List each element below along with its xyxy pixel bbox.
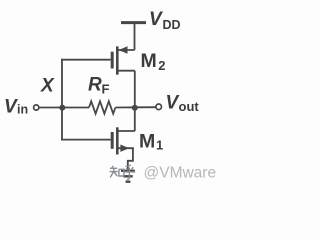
Vin terminal — [34, 105, 39, 110]
svg-text:V: V — [166, 93, 180, 114]
Vout terminal — [156, 104, 162, 110]
node X junction dot — [59, 105, 65, 111]
node X left rail — [61, 59, 63, 141]
gate bar — [111, 52, 114, 69]
transistor M1 (NMOS) — [112, 127, 135, 154]
resistor RF — [89, 101, 115, 113]
M2 label — [141, 50, 166, 73]
Vin label — [4, 96, 28, 117]
svg-text:V: V — [149, 9, 163, 30]
drain lead — [117, 70, 135, 72]
output junction dot — [132, 105, 138, 111]
Vout label — [166, 93, 200, 114]
wire output rail (M2 drain to M1 drain) — [134, 71, 136, 131]
RF label — [88, 74, 110, 96]
wire M2 gate lead — [61, 59, 111, 61]
drain lead — [117, 130, 135, 132]
PMOS arrow (points into channel, left) — [119, 46, 128, 53]
svg-text:out: out — [179, 99, 200, 114]
wire M1 gate lead — [61, 139, 111, 141]
svg-text:DD: DD — [163, 18, 181, 32]
NMOS arrow (points out of channel, right) — [120, 145, 129, 152]
svg-text:1: 1 — [156, 137, 163, 152]
ground — [121, 171, 135, 182]
VDD label — [149, 9, 181, 32]
svg-text:2: 2 — [158, 58, 165, 73]
source lead — [117, 147, 134, 149]
wire Vin to resistor — [39, 107, 89, 109]
svg-text:V: V — [4, 96, 18, 117]
gate bar — [111, 132, 114, 149]
svg-text:in: in — [17, 103, 28, 117]
svg-text:R: R — [88, 74, 102, 95]
svg-text:F: F — [102, 81, 110, 96]
svg-text:M: M — [139, 130, 155, 152]
wire resistor to output node — [115, 106, 155, 108]
wire VDD stem — [134, 23, 136, 50]
svg-text:X: X — [40, 76, 55, 97]
channel — [116, 127, 119, 154]
transistor M2 (PMOS) — [112, 46, 135, 74]
svg-text:@VMware: @VMware — [144, 165, 217, 182]
source lead — [117, 49, 134, 51]
wire M1 source to ground — [128, 148, 133, 170]
svg-text:M: M — [141, 50, 157, 72]
VDD supply bar — [121, 21, 146, 24]
watermark "知乎" glyph approximation — [110, 165, 136, 180]
channel — [116, 46, 119, 74]
M1 label — [139, 130, 163, 152]
